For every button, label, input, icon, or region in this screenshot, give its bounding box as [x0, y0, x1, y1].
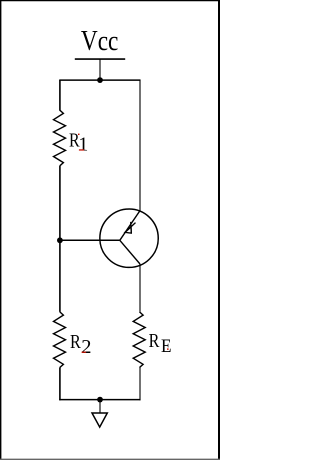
transistor Q1 emitter arrow — [125, 227, 131, 233]
svg-text:E: E — [161, 336, 172, 357]
wire base — [60, 239, 120, 241]
wire right upper — [139, 80, 141, 211]
ground — [92, 413, 107, 427]
wire top horizontal — [59, 79, 140, 81]
svg-text:R: R — [70, 332, 81, 353]
svg-text:2: 2 — [81, 336, 91, 358]
power rail bar Vcc — [75, 58, 125, 60]
resistor RE — [133, 312, 145, 368]
wire left upper — [59, 80, 61, 110]
resistor R1 — [54, 110, 66, 166]
wire left lower — [59, 368, 61, 401]
svg-text:Vcc: Vcc — [81, 26, 119, 57]
wire right middle — [139, 264, 141, 312]
svg-text:1: 1 — [78, 134, 88, 156]
wire Vcc stub — [99, 59, 101, 80]
border frame left — [0, 0, 2, 460]
wire bottom horizontal — [59, 399, 140, 401]
junction dot top node — [97, 77, 103, 83]
resistor R2 — [54, 312, 66, 368]
border frame top — [0, 0, 220, 2]
transistor Q1 collector (lower diagonal) — [120, 240, 140, 264]
wire ground stub — [99, 400, 101, 413]
junction dot base node — [57, 237, 63, 243]
border frame bottom — [0, 458, 220, 460]
transistor Q1 circle — [100, 209, 158, 267]
wire left middle — [59, 166, 61, 312]
svg-text:R: R — [149, 331, 160, 352]
border frame right — [218, 0, 220, 460]
transistor Q1 emitter (upper diagonal) — [120, 211, 140, 241]
junction dot ground node — [97, 397, 103, 403]
wire right lower — [139, 368, 141, 401]
